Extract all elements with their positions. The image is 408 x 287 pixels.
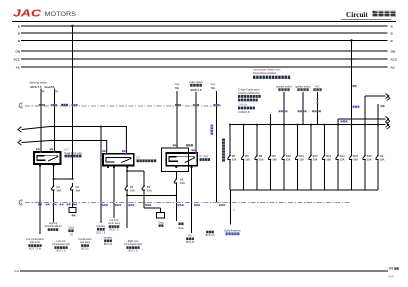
svg-text:Speaker: Speaker [104,236,113,239]
fuse D8 10A [256,125,258,153]
svg-text:combination light: combination light [124,243,142,246]
bus line AC6 [21,66,388,68]
svg-text:ON: ON [391,49,396,53]
svg-text:diode: diode [178,228,184,230]
relay D17 headlamp relay [34,152,61,164]
relay3 socket outline [161,148,188,172]
wire to connector arrow y=96 [365,95,386,97]
fuse D9 10A [270,125,272,153]
relay2 split bar y=171 [126,167,128,184]
fuse H4 30A [72,183,74,186]
svg-text:30A: 30A [57,188,62,192]
svg-text:Daily/Fusebox: Daily/Fusebox [224,229,241,233]
svg-text:15A: 15A [245,157,250,161]
diagnostic connector box [157,213,165,219]
svg-text:BCS 7.5: BCS 7.5 [110,229,120,232]
svg-text:D6: D6 [245,154,249,158]
svg-text:MOTORS: MOTORS [45,11,77,18]
wire F9 to diagnostic box [143,193,145,208]
ignition wire x=284 [283,92,285,125]
svg-text:H1: H1 [57,185,61,189]
off-page arrow wire to relay2 pin 2 [18,140,21,145]
svg-text:Using glass heated wire: Using glass heated wire [253,68,281,72]
svg-text:15A: 15A [340,157,345,161]
svg-text:Power/Rear window: Power/Rear window [253,71,276,75]
wire x=196 to relay3 [195,92,197,153]
svg-text:15A: 15A [299,157,304,161]
svg-text:Light switch: Light switch [189,80,203,84]
ground rail [20,270,388,272]
svg-text:Diag: Diag [159,222,164,224]
svg-text:ACC: ACC [391,57,398,61]
circled 2 marker lower [19,200,23,205]
wire from fuse 5A [53,89,55,153]
bus line ACC5 [21,58,388,60]
svg-text:BCS 5: BCS 5 [82,248,90,251]
bus line B2 [21,32,388,34]
svg-text:D8: D8 [259,154,263,158]
fuse row collector bus [230,189,378,191]
svg-text:D10: D10 [286,154,291,158]
wire code labels below dash line 2 [38,204,40,206]
wire relay1 pin 87 to lamp [39,165,41,234]
svg-text:10A: 10A [380,157,385,161]
svg-text:D7 relay: D7 relay [200,155,209,158]
svg-text:BCS 10: BCS 10 [104,243,113,246]
svg-text:BCS 7.5 W: BCS 7.5 W [29,248,42,251]
svg-text:Speaker: Speaker [96,225,105,228]
bus A wire to connector arrow y=124.6 [229,124,386,126]
svg-text:15A: 15A [147,188,152,192]
svg-text:C-08 (3): C-08 (3) [238,104,247,107]
svg-text:switch/headlight: switch/headlight [44,225,61,228]
ignition wire x=303 [302,92,304,125]
fuse H1 30A [53,183,55,186]
svg-text:C-08A(3) B: C-08A(3) B [238,111,250,114]
svg-text:2: 2 [21,104,23,108]
svg-text:rear lamp: rear lamp [80,241,91,244]
off-page arrow wire to relay2 pin 1 [18,127,21,132]
fuse D10 15A [283,125,285,153]
svg-text:Ignition switch: Ignition switch [295,85,311,88]
svg-text:15A: 15A [130,188,135,192]
svg-text:comb. lamp: comb. lamp [108,222,121,225]
svg-text:BCS 7.5: BCS 7.5 [191,88,202,92]
svg-text:BCS 7.5: BCS 7.5 [57,250,67,253]
wire relay1 pin 86 down [53,165,55,183]
collector drop wire [230,190,232,224]
svg-text:10A: 10A [353,157,358,161]
fuse H2 10A [175,172,177,177]
label: far right small [206,231,208,234]
bus line B1 [21,25,388,27]
svg-text:A/C: A/C [315,85,319,88]
clock connector box [69,208,76,213]
wire H2 branch left [175,186,177,221]
fuse D5 15A [229,125,231,153]
svg-text:10A: 10A [326,157,331,161]
svg-text:D5: D5 [232,154,236,158]
svg-text:2: 2 [21,201,23,205]
svg-text:H2: H2 [180,178,184,182]
svg-text:BCS 3.5: BCS 3.5 [206,234,216,237]
svg-text:Ignition switch: Ignition switch [276,85,292,88]
svg-text:ON: ON [16,49,21,53]
wire x=177 to relay socket [176,91,178,148]
svg-text:D12: D12 [313,154,318,158]
connector start of wire x=378 [377,106,379,153]
wire codes near x=351 [353,106,355,108]
svg-text:D1: D1 [380,154,384,158]
fuse D14 15A [337,125,339,153]
fuse D13 10A [324,125,326,153]
svg-text:Gnd: Gnd [14,270,19,273]
ignition wire x=317.5 [317,92,319,125]
bus line B3 [21,40,388,42]
relay D4 left relay [103,154,134,166]
fuse D11 15A [297,125,299,153]
fuse D16 15A [364,125,366,153]
relay D7 relay [166,153,197,166]
svg-text:BCS 7.5: BCS 7.5 [96,231,106,234]
top rule [12,21,396,23]
wire relay3 pin down [191,167,193,233]
svg-text:H4: H4 [76,185,80,189]
svg-text:BCS 7.5: BCS 7.5 [129,250,139,253]
svg-text:15A: 15A [367,157,372,161]
svg-text:30A: 30A [76,188,81,192]
wire x=100.8 down to speaker [100,127,102,224]
svg-text:D15: D15 [353,154,358,158]
svg-text:15A: 15A [232,157,237,161]
dash-dot boundary line 2 [25,202,351,204]
right ground label [389,267,391,269]
title underline [341,19,391,21]
svg-text:10A: 10A [313,157,318,161]
svg-text:light front: light front [30,241,40,244]
svg-text:D13: D13 [326,154,331,158]
rotated label small [211,125,214,135]
wire relay2 to headlight [113,167,115,219]
svg-text:D14: D14 [340,154,345,158]
svg-text:Clock: Clock [68,226,75,229]
wire x=216.5 long drop [216,91,218,203]
wire tap from bus B1 at x=72.5 [72,26,74,179]
svg-text:D16: D16 [367,154,372,158]
svg-text:HS: HS [188,234,192,237]
svg-text:fuse/5A: fuse/5A [45,85,55,89]
svg-text:ACC: ACC [14,57,21,61]
wire from steering switch label [40,89,42,153]
fuse F9 15A [143,183,145,186]
svg-text:D11: D11 [299,154,304,158]
fuse D6 15A [243,125,245,153]
clock pin code [72,215,74,217]
fuse D12 10A [310,125,312,153]
fuse D15 10A [351,125,353,153]
circled 2 marker left [19,103,23,108]
rotated label: relay box name [222,139,225,162]
small ref label above relay3 [186,144,188,146]
svg-text:combination light: combination light [52,243,70,246]
wire from TB2 [270,114,272,125]
svg-text:switch(headlight)/fog: switch(headlight)/fog [238,92,261,95]
bus line ON4 [21,50,388,52]
svg-text:Head lamp relay: Head lamp relay [65,152,83,155]
wire to connector arrow y=119 [338,118,386,120]
svg-text:BCS 15: BCS 15 [186,241,195,244]
svg-text:10A: 10A [180,181,185,185]
junction bar y=178.9 [54,178,73,180]
svg-text:BCS-7.5: BCS-7.5 [30,85,41,89]
svg-text:D9: D9 [272,154,276,158]
dash-dot boundary line 1 [25,105,222,107]
svg-text:Circuit: Circuit [346,11,368,19]
svg-text:10A: 10A [272,157,277,161]
wire tap from bus B3 at x=351.5 [351,41,353,153]
svg-text:15A: 15A [286,157,291,161]
svg-text:10A: 10A [259,157,264,161]
fuse D1 10A [377,125,379,153]
label: diode under H2 [178,223,180,226]
wire code labels on dash line 1 [39,104,41,106]
fuse F8 15A [126,183,128,186]
svg-text:JAC: JAC [13,8,42,20]
wire to clock connector [72,193,74,208]
